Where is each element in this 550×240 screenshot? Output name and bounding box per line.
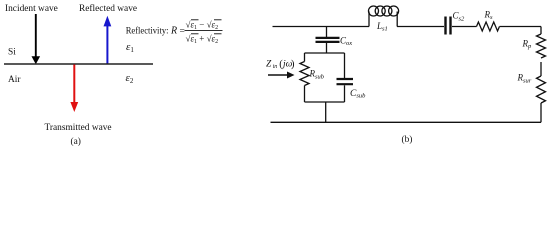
svg-text:Rsub: Rsub	[309, 69, 325, 81]
wire left branch lower	[304, 86, 306, 103]
input impedance arrow	[268, 74, 289, 76]
wire top rail left segment	[273, 26, 370, 28]
parallel block bottom rail	[305, 101, 345, 103]
wire stub from top rail to Cox	[326, 27, 328, 38]
fraction bar	[185, 29, 223, 31]
svg-text:Transmitted wave: Transmitted wave	[45, 123, 112, 133]
svg-text:Si: Si	[8, 48, 16, 58]
input impedance arrow head	[287, 72, 295, 79]
svg-text:Incident wave: Incident wave	[5, 4, 58, 14]
svg-text:): )	[291, 59, 295, 70]
transmitted wave arrow	[70, 65, 78, 113]
svg-text:Ls1: Ls1	[376, 21, 388, 33]
incident wave arrow	[32, 14, 41, 64]
svg-text:Cox: Cox	[340, 35, 352, 47]
reflected wave arrow	[104, 16, 112, 64]
svg-text:√ε1 − √ε2: √ε1 − √ε2	[186, 19, 219, 31]
svg-text:Z: Z	[266, 60, 272, 70]
wire stub from Cox to parallel block	[326, 43, 328, 53]
resistor Rs (horizontal)	[477, 22, 500, 31]
resistor Rsub (vertical)	[300, 62, 309, 86]
svg-text:in: in	[273, 64, 278, 70]
svg-text:Rs: Rs	[484, 9, 494, 21]
svg-text:(b): (b)	[402, 134, 413, 145]
wire right branch upper	[344, 53, 346, 78]
wire top rail after Cs2	[452, 26, 477, 28]
capacitor Csub	[337, 78, 354, 80]
parallel block top rail	[305, 52, 345, 54]
svg-text:R: R	[170, 25, 177, 36]
capacitor Cox	[316, 37, 340, 39]
svg-text:(a): (a)	[71, 136, 81, 147]
svg-text:=: =	[180, 26, 185, 36]
resistor Rsur (vertical)	[537, 76, 546, 103]
svg-text:√ε1 + √ε2: √ε1 + √ε2	[186, 33, 219, 45]
interface line Si/Air	[4, 63, 153, 65]
label Zin(jw)	[266, 59, 295, 70]
svg-text:Reflectivity:: Reflectivity:	[126, 25, 169, 36]
svg-text:Rsur: Rsur	[517, 73, 532, 85]
capacitor Cs2 (series)	[444, 17, 446, 35]
wire right vertical lower	[540, 103, 542, 122]
svg-text:ε1: ε1	[126, 41, 134, 54]
wire between Rp and Rsur	[540, 62, 542, 76]
resistor Rp (vertical)	[537, 34, 546, 58]
reflectivity formula	[126, 19, 223, 45]
svg-text:Air: Air	[8, 75, 21, 85]
svg-text:Cs2: Cs2	[453, 11, 466, 23]
inductor Ls1	[369, 12, 397, 27]
wire bottom rail	[271, 121, 542, 123]
wire right branch lower	[344, 85, 346, 102]
panel (b) circuit	[268, 6, 546, 122]
wire stub block to bottom rail	[325, 102, 327, 122]
svg-text:Rp: Rp	[522, 38, 533, 50]
svg-text:Reflected wave: Reflected wave	[79, 3, 137, 14]
wire top rail middle segment	[397, 26, 444, 28]
svg-text:Csub: Csub	[350, 89, 366, 100]
wire left branch upper	[304, 53, 306, 62]
svg-text:ε2: ε2	[126, 72, 134, 85]
wire top rail right segment	[500, 26, 542, 28]
wire right vertical upper	[540, 27, 542, 35]
